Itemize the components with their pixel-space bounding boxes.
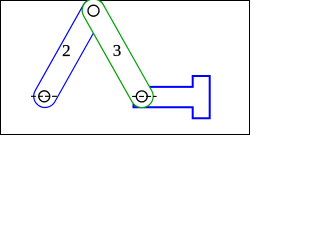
link 2 body bbox=[45, 10, 93, 96]
link 3 body bbox=[94, 10, 142, 96]
slider piston (link 4) bbox=[134, 76, 210, 118]
pin joint B (crank-coupler, apex) bbox=[88, 5, 99, 16]
centerline O2 bbox=[31, 95, 57, 97]
pin joint A (crank pivot O2) bbox=[39, 91, 50, 102]
pin joint C (coupler-slider) bbox=[136, 91, 147, 102]
svg-text:2: 2 bbox=[62, 41, 71, 60]
svg-text:3: 3 bbox=[113, 41, 122, 60]
border frame bbox=[1, 1, 250, 135]
centerline C bbox=[132, 95, 157, 97]
